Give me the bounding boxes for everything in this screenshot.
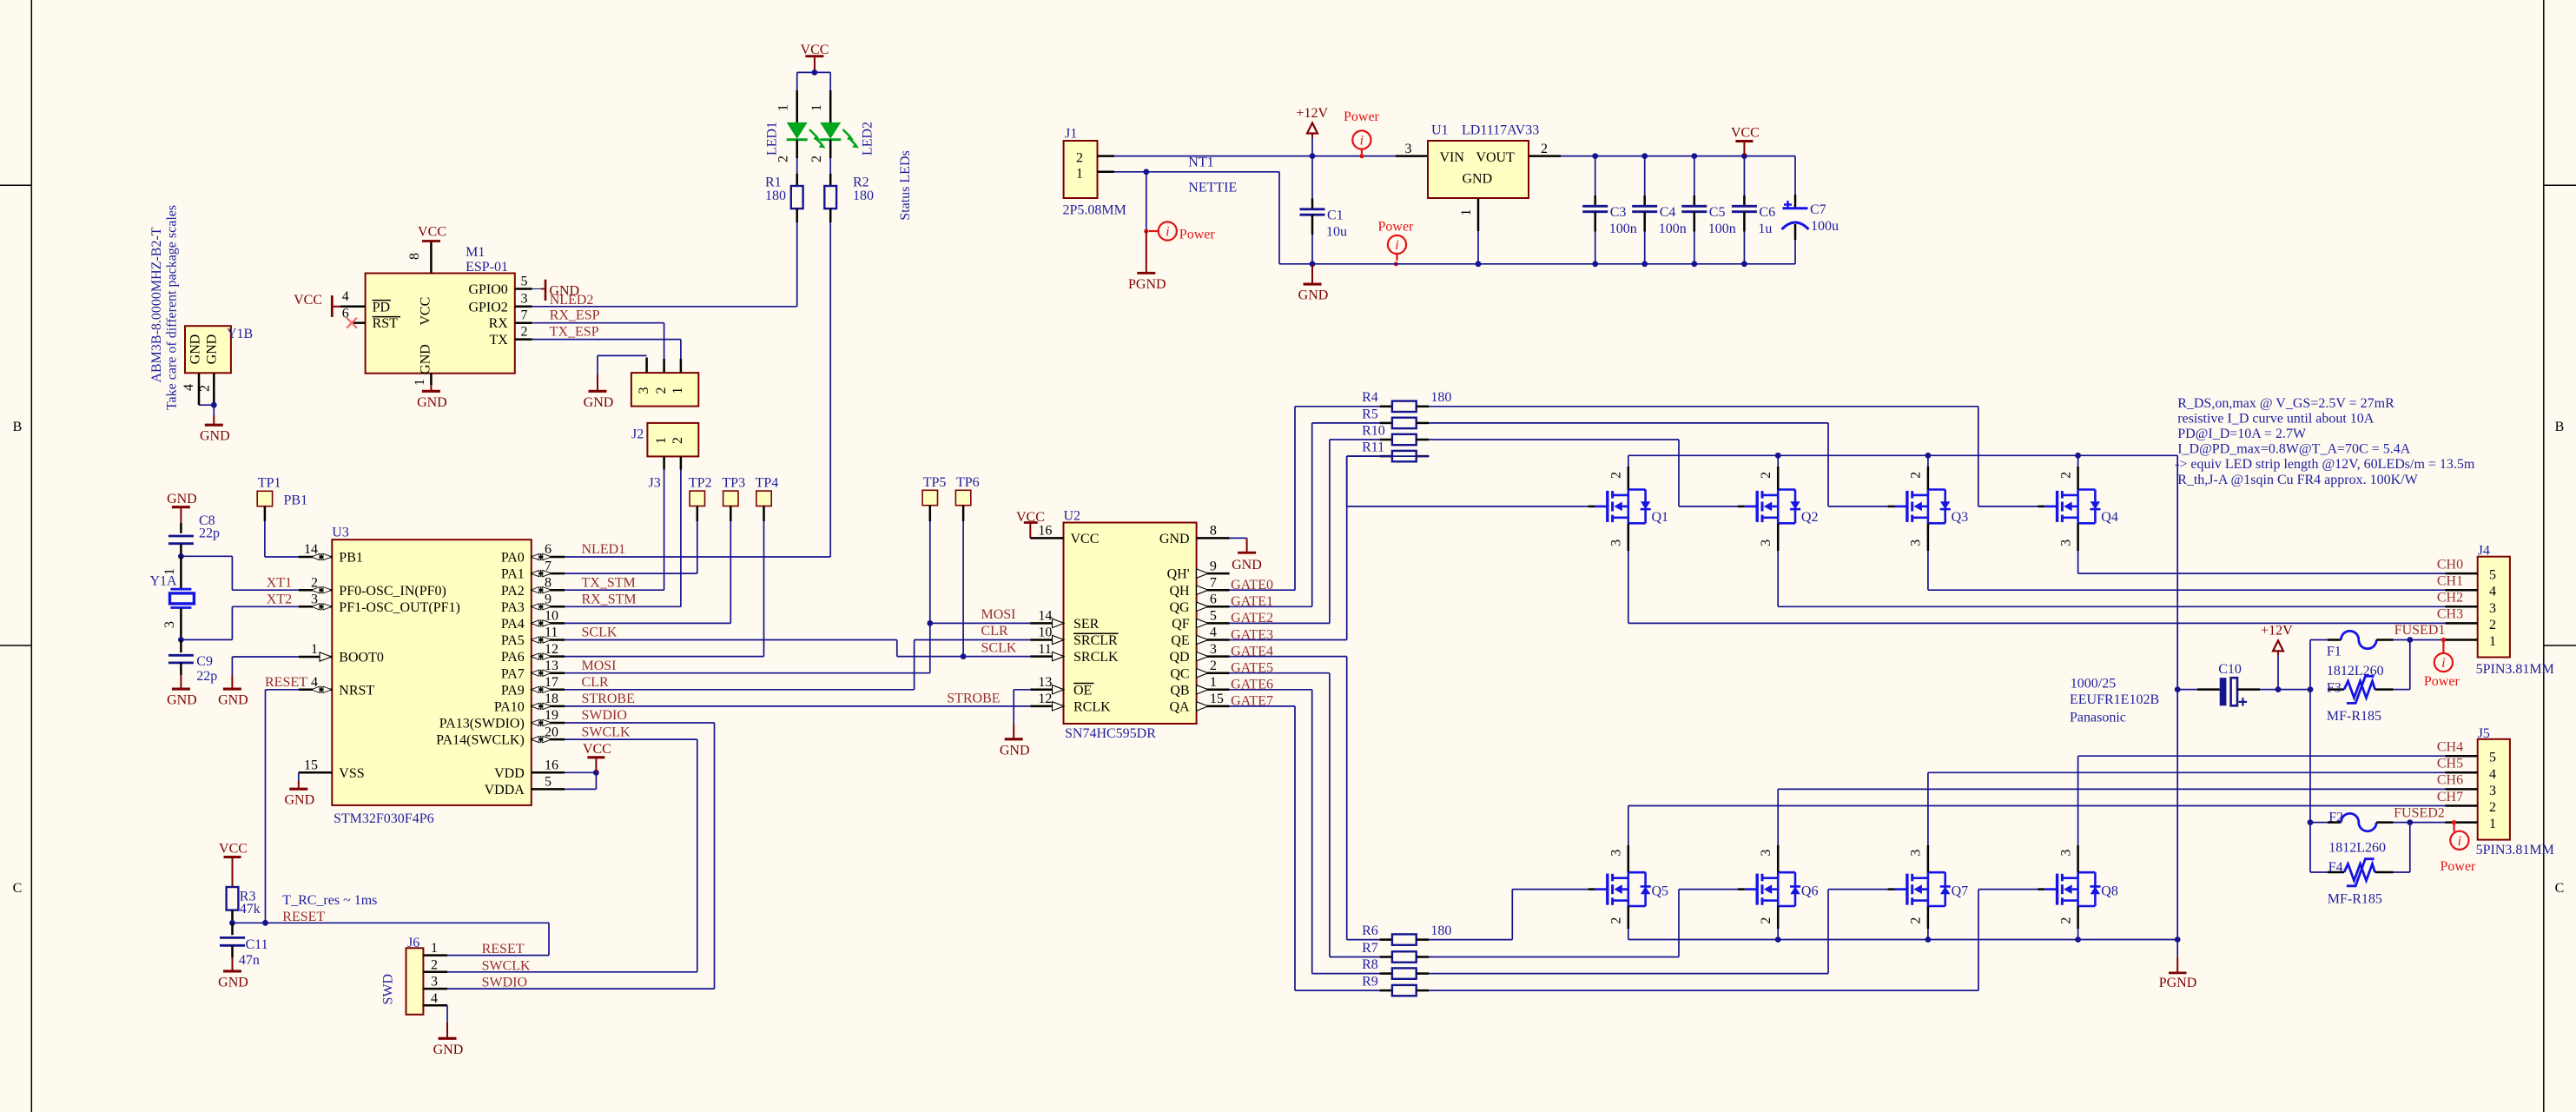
wire VDD to VCC [565, 771, 596, 773]
svg-text:i: i [2441, 656, 2445, 671]
wire XT1 [181, 555, 232, 557]
svg-text:GND: GND [433, 1042, 464, 1057]
svg-text:STM32F030F4P6: STM32F030F4P6 [334, 811, 434, 826]
pin 1 GND of U1 [1477, 198, 1480, 231]
ground M1 [430, 385, 432, 391]
svg-text:2P5.08MM: 2P5.08MM [1063, 203, 1126, 218]
svg-text:XT2: XT2 [267, 592, 292, 607]
pin 17 PA9 of U3 [532, 689, 565, 692]
svg-text:J4: J4 [2478, 544, 2490, 559]
wire LED1 anode [796, 72, 798, 90]
power flag Power 2 [1352, 130, 1371, 149]
svg-text:47n: 47n [239, 953, 260, 968]
wire J6 pin4 to GND [446, 1005, 448, 1023]
svg-text:Q4: Q4 [2101, 510, 2118, 525]
svg-text:OE: OE [1073, 683, 1092, 698]
svg-text:C6: C6 [1759, 205, 1775, 220]
test point TP4 [756, 491, 771, 506]
svg-text:1: 1 [431, 941, 438, 956]
svg-text:PA4: PA4 [501, 617, 525, 632]
svg-text:TP2: TP2 [689, 476, 712, 491]
svg-text:SER: SER [1073, 617, 1100, 632]
svg-text:GND: GND [417, 395, 447, 410]
wire R8 left to U2 [1230, 689, 1312, 691]
pin 1 of J3 [680, 359, 683, 373]
svg-text:4: 4 [182, 384, 196, 391]
svg-text:1: 1 [2489, 817, 2496, 831]
pin 1 GND of M1 [430, 374, 433, 385]
svg-text:TP5: TP5 [923, 475, 947, 490]
pin 13 PA7 of U3 [532, 672, 565, 674]
svg-text:CH5: CH5 [2437, 757, 2463, 771]
svg-text:GND: GND [1232, 558, 1262, 573]
pin 7 QH of U2 [1197, 589, 1230, 592]
wire to PGND [1146, 172, 1147, 231]
wire drain rail bottom [1628, 939, 2177, 941]
svg-text:100n: 100n [1659, 222, 1687, 236]
svg-text:1: 1 [809, 104, 824, 111]
pin 1 QB of U2 [1197, 689, 1230, 692]
svg-text:QB: QB [1170, 683, 1189, 698]
pin 4 of J6 [423, 1004, 447, 1007]
junction U1 GND [1476, 261, 1482, 267]
wire F4 riser [2409, 823, 2411, 872]
svg-text:3: 3 [1909, 539, 1924, 546]
svg-text:C3: C3 [1610, 205, 1627, 220]
wire R9 to Q8 gate [1429, 990, 1978, 991]
power VCC U3 [595, 758, 597, 773]
svg-text:I_D@PD_max=0.8W@T_A=70C = 5.4A: I_D@PD_max=0.8W@T_A=70C = 5.4A [2177, 442, 2411, 457]
svg-text:QH: QH [1169, 584, 1190, 599]
svg-text:U1: U1 [1431, 123, 1449, 138]
svg-text:EEUFR1E102B: EEUFR1E102B [2070, 692, 2159, 707]
pin 2 of Y1B [213, 373, 215, 405]
svg-text:PA14(SWCLK): PA14(SWCLK) [436, 733, 525, 748]
wire R9 left to U2 [1230, 705, 1295, 707]
svg-text:+12V: +12V [1297, 106, 1329, 121]
svg-text:PA5: PA5 [501, 633, 525, 648]
ground GPIO0 sideways [541, 288, 545, 290]
connector J5 [2478, 739, 2510, 840]
wire BOOT0 to GND [232, 656, 298, 658]
pin 2 VOUT of U1 [1529, 155, 1561, 157]
svg-text:R2: R2 [853, 175, 869, 189]
fuse F2 [2310, 822, 2328, 824]
svg-text:CH4: CH4 [2437, 740, 2463, 755]
svg-text:TX: TX [489, 333, 508, 347]
wire R11 left to U2 [1230, 639, 1347, 641]
svg-text:VCC: VCC [294, 293, 322, 308]
wire STROBE to U2 [565, 705, 1030, 707]
svg-text:i: i [1166, 225, 1169, 240]
svg-text:PA13(SWDIO): PA13(SWDIO) [439, 717, 525, 731]
svg-text:F2: F2 [2328, 811, 2343, 825]
svg-text:QE: QE [1171, 633, 1189, 648]
pin 10 SRCLR of U2 [1030, 639, 1063, 641]
resistor R11 [1380, 455, 1392, 458]
capacitor C9 [180, 639, 182, 652]
pin 3 QD of U2 [1197, 655, 1230, 658]
pin 1 of J2 [663, 456, 665, 469]
resistor R2 [829, 174, 832, 186]
svg-text:1: 1 [776, 104, 791, 111]
svg-text:J1: J1 [1065, 127, 1077, 142]
wire R4 left to U2 [1230, 589, 1295, 591]
svg-text:VCC: VCC [801, 43, 829, 57]
svg-text:1: 1 [1076, 167, 1083, 182]
svg-text:3: 3 [637, 387, 651, 394]
svg-text:Q2: Q2 [1801, 510, 1819, 525]
svg-text:2: 2 [1076, 150, 1083, 165]
svg-text:5: 5 [2489, 568, 2496, 583]
svg-text:2: 2 [2489, 618, 2496, 632]
ground U2 pin8 [1246, 538, 1248, 553]
svg-text:1: 1 [2489, 634, 2496, 649]
svg-text:RESET: RESET [482, 942, 525, 956]
resistor R3 [227, 887, 239, 910]
svg-text:PA0: PA0 [501, 551, 525, 566]
svg-text:2: 2 [1609, 472, 1624, 479]
svg-text:PGND: PGND [1128, 277, 1166, 292]
svg-text:R5: R5 [1362, 407, 1378, 421]
svg-text:LED2: LED2 [861, 122, 875, 156]
svg-text:2: 2 [2058, 917, 2073, 924]
svg-text:RESET: RESET [265, 675, 307, 690]
svg-text:GND: GND [418, 344, 433, 374]
pin 9 QH' of U2 [1197, 573, 1230, 575]
pin 5 VDDA of U3 [532, 788, 565, 791]
connector J3 [631, 373, 698, 407]
svg-text:CLR: CLR [582, 675, 609, 690]
svg-text:2: 2 [776, 156, 791, 162]
ground C1 [1311, 264, 1313, 284]
pin 12 RCLK of U2 [1030, 705, 1063, 708]
svg-text:SCLK: SCLK [582, 625, 618, 640]
svg-text:VDD: VDD [494, 766, 525, 781]
svg-text:B: B [2555, 420, 2565, 434]
svg-text:2: 2 [1210, 659, 1217, 673]
svg-text:VCC: VCC [418, 225, 446, 240]
svg-text:Y1B: Y1B [227, 327, 253, 341]
module M1 ESP-01 [366, 274, 515, 374]
pin 6 RST of M1 no-connect [352, 321, 366, 324]
svg-text:TX_ESP: TX_ESP [550, 325, 599, 340]
power +12V at C10 [2273, 640, 2283, 651]
svg-text:QD: QD [1169, 650, 1189, 665]
transistor Q2 [1755, 491, 1758, 522]
pin 3 of J5 [2446, 788, 2478, 791]
svg-text:resistive I_D curve until abou: resistive I_D curve until about 10A [2177, 412, 2375, 427]
wire TX_ESP [532, 339, 681, 341]
svg-text:PA6: PA6 [501, 650, 525, 665]
svg-text:STROBE: STROBE [947, 692, 1000, 706]
svg-text:LED1: LED1 [765, 122, 780, 156]
svg-text:100n: 100n [1708, 222, 1736, 236]
wire J2 pin1 to TX_STM [664, 470, 665, 591]
PTC fuse F4 [2310, 871, 2328, 873]
svg-text:U3: U3 [332, 526, 349, 540]
svg-text:CH7: CH7 [2437, 790, 2463, 804]
svg-text:PA3: PA3 [501, 600, 525, 615]
pin 3 of J6 [423, 988, 447, 990]
svg-text:GND: GND [1159, 532, 1190, 546]
resistor R10 [1380, 439, 1392, 441]
svg-text:2: 2 [521, 325, 528, 340]
svg-text:Take care of different package: Take care of different package scales [165, 205, 180, 410]
test point TP2 [690, 491, 704, 506]
svg-text:GND: GND [200, 429, 230, 444]
wire GPIO0 to GND [532, 288, 541, 290]
junction drain Q7 [1925, 937, 1932, 943]
svg-text:15: 15 [304, 758, 318, 773]
svg-text:FUSED2: FUSED2 [2394, 805, 2445, 820]
junction F2 split [2308, 819, 2314, 825]
svg-text:VCC: VCC [1071, 532, 1100, 546]
svg-text:1: 1 [654, 437, 669, 444]
wire TP2 to PA1 [697, 506, 699, 522]
svg-text:R9: R9 [1362, 975, 1378, 990]
fuse F1 [2310, 639, 2328, 641]
pin 2 of J6 [423, 971, 447, 974]
pin 13 OE of U2 [1030, 689, 1063, 692]
svg-text:TP3: TP3 [722, 476, 745, 491]
svg-text:GND: GND [167, 492, 197, 506]
ground Y1B [213, 415, 215, 425]
wire R8 to Q7 gate [1429, 973, 1828, 975]
wire J3 pin3 to GND [597, 355, 598, 374]
svg-text:CH0: CH0 [2437, 557, 2463, 572]
svg-text:Q8: Q8 [2101, 884, 2118, 899]
svg-text:Status LEDs: Status LEDs [898, 150, 913, 220]
wire SWDIO to J6 [565, 722, 715, 724]
pin 14 PB1 of U3 [299, 556, 333, 559]
svg-text:C: C [2555, 881, 2565, 896]
resistor R7 [1380, 956, 1392, 958]
svg-text:+12V: +12V [2261, 624, 2293, 639]
wire FUSED2 to J5 [2410, 822, 2446, 824]
svg-text:12: 12 [1038, 692, 1052, 706]
svg-text:3: 3 [1405, 142, 1412, 156]
junction NRST reset [262, 920, 268, 926]
wire TP6 to SCLK [962, 506, 965, 521]
pin 3 PF1-OSC_OUT(PF1) of U3 [299, 606, 333, 608]
wire VCC rail top [1561, 156, 1795, 157]
svg-text:J5: J5 [2478, 726, 2490, 741]
junction R3 bottom [229, 920, 235, 926]
svg-text:PA10: PA10 [494, 700, 525, 715]
svg-text:R4: R4 [1362, 390, 1378, 405]
transistor Q7 [1906, 874, 1908, 905]
svg-text:180: 180 [853, 189, 874, 203]
svg-text:MF-R185: MF-R185 [2327, 709, 2381, 724]
wire R1 to NLED2 [796, 222, 798, 307]
svg-text:RCLK: RCLK [1073, 700, 1111, 715]
svg-text:RST: RST [373, 316, 399, 331]
pin 3 of J4 [2446, 606, 2478, 608]
svg-text:C10: C10 [2218, 662, 2242, 677]
regulator U1 LD1117AV33 [1396, 155, 1428, 157]
svg-text:1: 1 [1459, 209, 1474, 216]
pin 3 of J3 [645, 358, 648, 374]
svg-text:VDDA: VDDA [485, 783, 525, 798]
svg-text:8: 8 [1210, 524, 1217, 539]
svg-text:R_th,J-A @1sqin Cu FR4 approx.: R_th,J-A @1sqin Cu FR4 approx. 100K/W [2177, 473, 2418, 487]
svg-text:GND: GND [205, 334, 220, 365]
junction drain Q3 [1925, 453, 1932, 459]
svg-text:SCLK: SCLK [981, 640, 1017, 655]
svg-text:3: 3 [1609, 850, 1624, 857]
resistor R6 [1380, 938, 1392, 941]
pin 2 PF0-OSC_IN(PF0) of U3 [299, 589, 333, 592]
junction +12V rail bottom [2175, 937, 2181, 943]
test point TP1 [257, 491, 272, 506]
junction drain Q2 [1775, 453, 1781, 459]
svg-text:6: 6 [1210, 592, 1217, 607]
pin 11 SRCLK of U2 [1030, 655, 1063, 658]
svg-text:RESET: RESET [282, 910, 325, 924]
svg-text:TP4: TP4 [756, 476, 779, 491]
svg-text:CH3: CH3 [2437, 607, 2463, 622]
wire LED1 cathode [796, 140, 798, 158]
svg-text:2: 2 [809, 156, 824, 162]
svg-text:Power: Power [1378, 219, 1415, 234]
svg-text:TX_STM: TX_STM [582, 575, 636, 590]
svg-text:CH6: CH6 [2437, 773, 2463, 788]
svg-text:C4: C4 [1660, 205, 1676, 220]
wire drain pin [1777, 455, 1779, 467]
wire OE to GND [1014, 689, 1030, 691]
pin 16 VCC of U2 [1030, 537, 1063, 539]
pin 5 of J5 [2446, 755, 2478, 758]
svg-text:GPIO2: GPIO2 [468, 300, 507, 314]
wire U2 GND [1230, 537, 1247, 539]
wire TP4 to PA6 [763, 506, 765, 522]
svg-text:14: 14 [1038, 609, 1052, 624]
svg-text:T_RC_res ~ 1ms: T_RC_res ~ 1ms [282, 893, 377, 908]
power flag FUSED2 [2454, 823, 2455, 832]
test point TP3 [723, 491, 738, 506]
svg-text:7: 7 [521, 308, 528, 323]
wire NLED2 [532, 306, 797, 308]
svg-text:Q3: Q3 [1952, 510, 1969, 525]
svg-text:2: 2 [1609, 917, 1624, 924]
svg-text:GND: GND [1298, 288, 1329, 303]
svg-text:1: 1 [162, 568, 177, 575]
junction FUSED2 [2407, 819, 2413, 825]
svg-text:1: 1 [1210, 675, 1217, 690]
junction FUSED1 [2407, 637, 2413, 643]
capacitor C3 [1595, 156, 1596, 195]
wire fuse left column [2309, 640, 2311, 873]
wire CH6 from source [1777, 845, 1780, 872]
svg-text:2: 2 [431, 957, 438, 972]
wire LED2 anode [829, 72, 831, 90]
pin 4 NRST of U3 [299, 689, 333, 692]
svg-text:J6: J6 [407, 936, 419, 950]
svg-text:2: 2 [1759, 472, 1773, 479]
resistor R4 [1380, 406, 1392, 408]
svg-text:F4: F4 [2328, 860, 2343, 875]
wire drain pin bottom [2077, 906, 2079, 929]
power flag Power 1 [1159, 222, 1177, 240]
svg-text:QH': QH' [1167, 567, 1190, 582]
junction +12V C10 row [2175, 686, 2181, 692]
crystal Y1B [185, 326, 231, 373]
svg-text:1: 1 [670, 387, 685, 394]
pin 2 QC of U2 [1197, 672, 1230, 674]
svg-text:SWDIO: SWDIO [582, 708, 627, 723]
svg-text:5: 5 [1210, 609, 1217, 624]
junction fuse split [2308, 686, 2314, 692]
wire SCLK to U2 [565, 639, 897, 641]
svg-text:13: 13 [1038, 675, 1052, 690]
resistor R1 [796, 174, 798, 186]
svg-text:5PIN3.81MM: 5PIN3.81MM [2476, 843, 2554, 857]
pin 1 of J4 [2446, 639, 2478, 641]
svg-text:R6: R6 [1362, 923, 1378, 938]
resistor R5 [1380, 422, 1392, 425]
svg-text:3: 3 [1210, 642, 1217, 657]
svg-text:SWD: SWD [381, 974, 396, 1005]
pin 4 of J5 [2446, 771, 2478, 774]
wire XT2 [181, 639, 232, 640]
connector J4 [2478, 557, 2510, 658]
junction XT1 [178, 553, 184, 559]
wire R5 left to U2 [1230, 606, 1312, 607]
test point TP6 [955, 490, 970, 505]
junction TP5 MOSI [927, 620, 933, 626]
svg-text:GND: GND [1463, 172, 1493, 187]
wire CH0 from source [2077, 523, 2079, 551]
svg-text:3: 3 [2058, 539, 2073, 546]
svg-text:5: 5 [545, 775, 552, 790]
pin 16 VDD of U3 [532, 771, 565, 774]
transistor Q6 [1755, 874, 1758, 905]
svg-text:GND: GND [218, 693, 248, 708]
capacitor C5 [1694, 156, 1695, 195]
svg-text:PA1: PA1 [501, 567, 525, 582]
svg-text:PD@I_D=10A = 2.7W: PD@I_D=10A = 2.7W [2177, 427, 2307, 441]
svg-text:3: 3 [431, 975, 438, 990]
svg-text:MOSI: MOSI [981, 607, 1016, 622]
wire MOSI to U2 [565, 672, 930, 674]
capacitor C8 [180, 523, 182, 533]
pin 2 of J1 [1098, 155, 1115, 157]
wire drain pin [2077, 455, 2079, 467]
svg-text:C5: C5 [1709, 205, 1726, 220]
svg-text:F1: F1 [2327, 645, 2342, 659]
svg-text:5: 5 [521, 275, 528, 289]
svg-text:PB1: PB1 [284, 493, 308, 507]
ground J6 [446, 1023, 448, 1038]
wire FUSED1 to J4 [2410, 639, 2446, 641]
wire drain pin [1927, 455, 1929, 467]
pin 6 QG of U2 [1197, 606, 1230, 608]
connector J2 [647, 423, 698, 457]
svg-text:1: 1 [311, 642, 318, 657]
capacitor C1 [1311, 156, 1313, 199]
svg-text:NRST: NRST [339, 683, 374, 698]
svg-text:4: 4 [1210, 625, 1217, 640]
resistor R9 [1380, 990, 1392, 992]
svg-text:GND: GND [167, 693, 197, 708]
wire R11 to Q1 gate [1347, 455, 1430, 457]
pin 15 QA of U2 [1197, 705, 1230, 708]
svg-text:R_DS,on,max @ V_GS=2.5V = 27mR: R_DS,on,max @ V_GS=2.5V = 27mR [2177, 396, 2394, 411]
svg-text:8: 8 [407, 253, 422, 260]
junction XT2 [178, 637, 184, 643]
wire F3 riser [2409, 640, 2411, 690]
